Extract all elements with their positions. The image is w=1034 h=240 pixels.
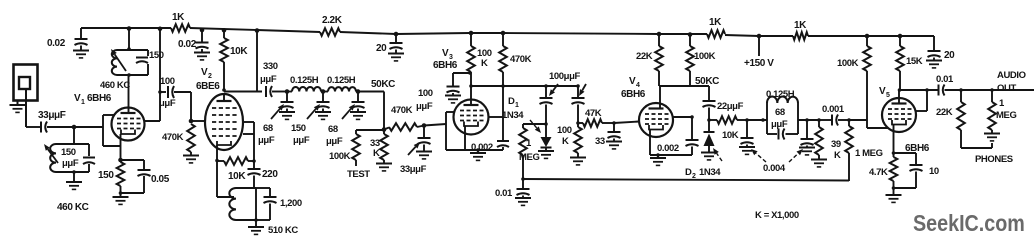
node rail 22K (657, 32, 662, 37)
svg-text:100K: 100K (694, 51, 716, 62)
svg-text:470K: 470K (162, 132, 184, 143)
svg-text:TEST: TEST (347, 169, 370, 180)
svg-text:100: 100 (160, 76, 175, 87)
svg-text:1: 1 (81, 99, 85, 106)
svg-text:μμF: μμF (771, 119, 788, 130)
capacitor 0.004 (b) (805, 118, 809, 122)
capacitor 0.001 (818, 119, 831, 121)
svg-text:OUT: OUT (997, 83, 1016, 94)
resistor 100K (V3) (470, 33, 472, 46)
wire 470K down (502, 86, 504, 117)
svg-text:V: V (74, 93, 81, 104)
svg-text:2: 2 (692, 173, 696, 180)
svg-text:1K: 1K (709, 17, 722, 28)
resistor 10K (plate V2) (223, 30, 225, 38)
wire plate bus V4 (659, 85, 709, 87)
node filter out (356, 89, 361, 94)
resistor 2.2K (320, 28, 340, 36)
node rail drop (255, 28, 260, 33)
svg-text:0.02: 0.02 (47, 38, 66, 49)
svg-text:100: 100 (557, 125, 572, 136)
svg-text:μμF: μμF (62, 158, 79, 169)
capacitor 100 uuF (coupling) (160, 91, 166, 93)
svg-text:39: 39 (831, 139, 841, 150)
tuned tank 460KC (var cap 150uuF + coil) (73, 127, 75, 144)
resistor 1 MEG (audio) (991, 90, 993, 102)
svg-text:100: 100 (418, 88, 433, 99)
resistor 100K (V4) (689, 35, 691, 47)
node screen/coupling (158, 90, 162, 94)
wire plate V2 to filter (224, 91, 262, 93)
svg-text:6BH6: 6BH6 (621, 89, 646, 100)
svg-text:V: V (442, 48, 449, 59)
svg-text:0.002: 0.002 (657, 143, 679, 154)
svg-text:0.01: 0.01 (495, 188, 513, 199)
wire plate V1 (128, 75, 130, 113)
ground (osc tank) (254, 218, 258, 222)
node grid V3 (422, 123, 427, 128)
svg-text:1 MEG: 1 MEG (855, 148, 883, 159)
node rail 100K V5 (865, 34, 870, 39)
node plate wire 470K (501, 84, 505, 88)
resistor 100K (det) (577, 123, 579, 127)
svg-text:MEG: MEG (996, 110, 1016, 121)
tube V5 6BH6 (882, 98, 916, 132)
resistor 15K (899, 36, 901, 46)
wire B+ to plate node (256, 31, 258, 92)
svg-text:20: 20 (376, 43, 387, 54)
resistor 100K (V5) (866, 36, 868, 46)
node grid network V5 (847, 118, 851, 122)
svg-text:10K: 10K (722, 130, 739, 141)
wire AVC bus (523, 179, 849, 181)
node grid V1 / tank (72, 125, 77, 130)
label +150V (757, 34, 762, 39)
svg-text:0.001: 0.001 (822, 104, 845, 115)
wire phones (961, 147, 992, 149)
svg-text:1N34: 1N34 (699, 167, 721, 178)
svg-text:1: 1 (515, 102, 519, 109)
diode D2 1N34 (708, 120, 710, 132)
wire cathode V4 (649, 130, 651, 156)
wire cathode V2 (216, 145, 218, 160)
svg-text:0.02: 0.02 (178, 39, 197, 50)
ground (cathode V4) (657, 155, 659, 158)
svg-text:2: 2 (208, 73, 212, 80)
node plate V1 (127, 73, 131, 77)
svg-text:1,200: 1,200 (280, 198, 302, 209)
ground (cathode V1) (120, 193, 122, 197)
capacitor 0.002 (V3) (497, 140, 509, 142)
svg-text:K = X1,000: K = X1,000 (755, 210, 799, 221)
capacitor 0.02 (far left) (80, 28, 82, 39)
capacitor 20 (1) (394, 32, 399, 37)
svg-text:4: 4 (636, 82, 640, 89)
wire filter out down (383, 92, 385, 130)
node rail 10K (222, 28, 227, 33)
wire cathode bottom V5 (894, 187, 917, 189)
node 33 cap (612, 121, 616, 125)
capacitor 22uuF (708, 86, 710, 101)
node filter mid (321, 89, 326, 94)
inductor 0.125H (box) (766, 103, 768, 134)
resistor 1 MEG (V5 grid) (848, 120, 850, 126)
node detector D1 (544, 122, 548, 126)
trimmer 33uuF (grid V3) (423, 126, 425, 138)
node rail 100K V3 (469, 31, 474, 36)
resistor 10K (det out) (709, 119, 717, 121)
oscillator coil + tank (236, 187, 256, 189)
svg-text:6BH6: 6BH6 (87, 93, 112, 104)
svg-text:K: K (481, 58, 488, 69)
wire antenna to C (25, 90, 27, 127)
resistor 1 MEG (AVC) (523, 123, 546, 125)
node rail 0.02 (200, 28, 205, 33)
wire screen V5 (916, 110, 928, 112)
svg-text:0.125H: 0.125H (766, 89, 795, 100)
loop antenna (14, 65, 38, 101)
svg-text:460 KC: 460 KC (57, 202, 89, 213)
svg-text:100μμF: 100μμF (549, 71, 580, 82)
resistor 1K (mid) (707, 30, 725, 38)
tube V4 6BH6 (639, 103, 673, 137)
svg-text:50KC: 50KC (371, 79, 395, 90)
resistor 22K (audio) (960, 90, 962, 102)
ground (100K det) (570, 157, 586, 159)
wire plate V2 (223, 94, 225, 101)
inductor 0.125H (2) (328, 87, 356, 91)
capacitor 20 (2) (933, 36, 935, 51)
resistor 150 (cathode V1) (121, 159, 145, 161)
svg-text:5: 5 (886, 92, 890, 99)
svg-text:100K: 100K (837, 58, 859, 69)
wire plate V3 bus (471, 85, 578, 87)
svg-text:V: V (879, 86, 886, 97)
node rail tank (127, 26, 132, 31)
trimmer 100uuF (b) (577, 86, 579, 98)
svg-text:15K: 15K (906, 56, 923, 67)
node rail 15K (898, 34, 903, 39)
wire plate V4 (659, 86, 661, 109)
resistor 39K (818, 120, 820, 127)
node filter2 in (745, 118, 749, 122)
svg-text:0.125H: 0.125H (290, 75, 319, 86)
svg-text:100K: 100K (329, 151, 351, 162)
svg-text:22μμF: 22μμF (717, 101, 744, 112)
node plate V2 (222, 88, 226, 92)
trimmer 150uuF (322, 92, 324, 102)
svg-text:4.7K: 4.7K (869, 167, 888, 178)
svg-text:150: 150 (98, 170, 114, 181)
svg-text:470K: 470K (391, 105, 413, 116)
svg-text:0.002: 0.002 (471, 142, 493, 153)
wire LC out (798, 119, 818, 121)
svg-text:MEG: MEG (519, 152, 539, 163)
node rail 100K V4 (688, 32, 693, 37)
wire screen V1 (159, 29, 161, 121)
svg-text:0.05: 0.05 (151, 174, 170, 185)
tube V2 6BE6 (205, 94, 243, 150)
svg-text:6BH6: 6BH6 (433, 60, 458, 71)
svg-text:33: 33 (595, 136, 605, 147)
node AVC (521, 177, 525, 181)
tube V1 6BH6 (112, 108, 145, 141)
capacitor 10 (894, 152, 917, 154)
ground (antenna) (10, 104, 26, 106)
svg-text:33μμF: 33μμF (400, 164, 427, 175)
svg-text:μμF: μμF (260, 74, 277, 85)
resistor 470K (grid V3) (389, 123, 417, 131)
svg-text:68: 68 (775, 107, 785, 118)
wire to LC (747, 119, 767, 121)
wire plate V3 (470, 86, 472, 105)
diode D1 1N34 (545, 124, 547, 137)
svg-text:K: K (834, 150, 841, 161)
capacitor 33 (613, 123, 615, 132)
resistor 470K (plate V3) (502, 33, 504, 46)
svg-text:0.004: 0.004 (763, 163, 786, 174)
svg-text:150: 150 (291, 123, 306, 134)
svg-text:μμF: μμF (293, 135, 310, 146)
ground (470K V2) (183, 155, 199, 157)
svg-text:D: D (685, 167, 692, 178)
ground (cathode V5) (893, 188, 895, 195)
wire cathode V3 (445, 148, 447, 150)
capacitor 0.004 (a) (746, 120, 748, 138)
capacitor 1,200 (256, 187, 270, 189)
svg-text:2.2K: 2.2K (322, 15, 343, 26)
node rail screen V1 (158, 27, 163, 32)
svg-text:10: 10 (929, 166, 939, 177)
svg-text:SeekIC.com: SeekIC.com (913, 209, 1025, 236)
wire grid V1 (74, 126, 103, 128)
tuned IF transformer 460KC (128, 29, 130, 51)
resistor 10K (osc) (217, 160, 224, 162)
svg-text:1N34: 1N34 (502, 110, 524, 121)
resistor 22K (658, 34, 660, 46)
ground (antenna tank) (73, 172, 75, 182)
resistor 4.7K (893, 153, 895, 157)
wire cathode V1 (120, 134, 122, 160)
wire screen V4 (673, 116, 693, 118)
svg-text:20: 20 (944, 50, 955, 61)
node screen bypass (468, 71, 472, 75)
svg-text:220: 220 (262, 169, 278, 180)
capacitor 0.01 (audio) (899, 89, 938, 91)
resistor 100K (TEST) (355, 130, 357, 134)
svg-text:μμF: μμF (258, 135, 275, 146)
node 22K audio (959, 88, 963, 92)
capacitor 33 uuF (series) (40, 122, 42, 133)
wire grid V3 step (424, 124, 446, 126)
capacitor 0.05 (143, 160, 145, 169)
node 1MEG audio (990, 88, 994, 92)
tube V3 6BH6 (454, 100, 489, 135)
ground (phones) (984, 133, 1000, 135)
ground (cathode V3) (477, 150, 479, 153)
resistor 1K (right) (793, 32, 808, 40)
svg-text:150: 150 (149, 50, 164, 61)
wire B+ rail (81, 27, 171, 29)
svg-text:+150 V: +150 V (744, 58, 774, 69)
svg-text:10K: 10K (230, 46, 248, 57)
node D2 (707, 118, 711, 122)
inductor 0.125H (1) (292, 87, 321, 92)
wire grid V5 (849, 119, 867, 121)
resistor 470K (grid V2) (187, 124, 195, 152)
wire grid3 V2 (191, 120, 205, 122)
svg-text:1K: 1K (172, 12, 185, 23)
svg-text:K: K (373, 148, 380, 159)
trimmer 68uuF (1) (286, 92, 288, 102)
ground (D2) (701, 152, 717, 154)
svg-text:68: 68 (328, 124, 338, 135)
svg-text:22K: 22K (636, 51, 653, 62)
svg-text:0.01: 0.01 (936, 74, 954, 85)
svg-text:47K: 47K (585, 108, 602, 119)
node 39K (817, 118, 821, 122)
svg-text:μμF: μμF (159, 98, 176, 109)
svg-text:330: 330 (263, 61, 278, 72)
svg-text:150: 150 (61, 147, 76, 158)
svg-text:V: V (629, 76, 636, 87)
resistor 47K (578, 122, 583, 124)
svg-text:0.125H: 0.125H (327, 75, 356, 86)
capacitor 0.002 (V4) (691, 117, 693, 140)
resistor 33K (383, 130, 385, 135)
node rail 470K (501, 31, 506, 36)
svg-text:22K: 22K (936, 107, 953, 118)
capacitor 0.01 (AVC) (522, 179, 524, 189)
svg-text:1K: 1K (794, 20, 807, 31)
capacitor 0.02 (screen bypass) (201, 30, 203, 42)
wire screen V2 (243, 121, 254, 123)
svg-text:K: K (562, 136, 569, 147)
svg-text:510 KC: 510 KC (268, 225, 298, 236)
svg-text:V: V (201, 67, 208, 78)
trimmer 68uuF (2) (357, 92, 359, 102)
ground (33K) (376, 163, 392, 165)
svg-text:AUDIO: AUDIO (997, 70, 1026, 81)
ground (39K) (811, 159, 827, 161)
svg-text:μμF: μμF (416, 101, 433, 112)
node filter in (285, 89, 290, 94)
ground (D1) (538, 150, 554, 152)
capacitor 330 uuF (265, 86, 267, 97)
svg-text:PHONES: PHONES (975, 154, 1013, 165)
svg-text:460 KC: 460 KC (100, 80, 130, 91)
svg-text:50KC: 50KC (695, 76, 719, 87)
svg-text:33μμF: 33μμF (38, 110, 66, 121)
svg-text:D: D (508, 96, 515, 107)
capacitor 220 (253, 161, 255, 169)
resistor 1K (top left) (171, 24, 190, 32)
svg-text:10K: 10K (228, 171, 246, 182)
wire cathode bottom (120, 186, 122, 193)
wire plate V5 (898, 90, 900, 104)
svg-text:6BE6: 6BE6 (196, 81, 220, 92)
capacitor 100uuF (screen V3) (453, 72, 470, 74)
svg-text:68: 68 (263, 123, 273, 134)
wire grid V4 (614, 122, 639, 124)
trimmer 100uuF (a) (545, 86, 547, 98)
svg-text:470K: 470K (510, 54, 532, 65)
svg-text:μμF: μμF (326, 136, 343, 147)
wire cathode V5 (893, 125, 895, 154)
